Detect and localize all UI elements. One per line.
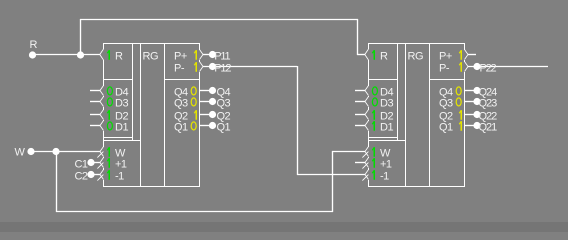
svg-text:W: W — [15, 147, 26, 159]
svg-text:P+: P+ — [439, 51, 452, 63]
svg-text:C1: C1 — [74, 159, 87, 171]
svg-text:P12: P12 — [214, 63, 231, 75]
svg-text:Q1: Q1 — [217, 122, 231, 134]
svg-text:P22: P22 — [480, 63, 497, 75]
svg-text:Q1: Q1 — [174, 122, 188, 134]
svg-text:R: R — [115, 51, 123, 63]
svg-text:P-: P- — [174, 63, 185, 75]
svg-text:Q3: Q3 — [439, 98, 453, 110]
svg-text:-1: -1 — [380, 171, 389, 183]
svg-text:P+: P+ — [174, 51, 187, 63]
svg-text:-1: -1 — [115, 171, 124, 183]
svg-text:D1: D1 — [380, 122, 393, 134]
svg-text:Q3: Q3 — [174, 98, 188, 110]
svg-text:Q3: Q3 — [217, 98, 231, 110]
svg-text:D1: D1 — [115, 122, 128, 134]
svg-text:P11: P11 — [214, 51, 230, 63]
svg-text:Q1: Q1 — [439, 122, 453, 134]
svg-text:C2: C2 — [74, 171, 87, 183]
svg-text:D3: D3 — [115, 98, 128, 110]
svg-text:RG: RG — [408, 51, 424, 63]
svg-text:R: R — [380, 51, 388, 63]
svg-text:+1: +1 — [380, 159, 392, 171]
svg-text:RG: RG — [143, 51, 159, 63]
svg-text:P-: P- — [439, 63, 450, 75]
svg-text:Q23: Q23 — [479, 98, 498, 110]
svg-text:D3: D3 — [380, 98, 393, 110]
svg-text:+1: +1 — [115, 159, 127, 171]
svg-text:Q21: Q21 — [479, 122, 498, 134]
svg-text:R: R — [30, 39, 38, 51]
